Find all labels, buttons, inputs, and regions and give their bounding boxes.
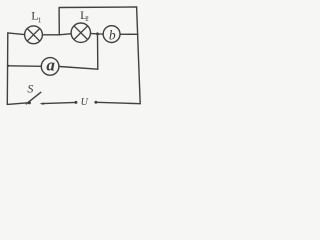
meter a circle	[41, 58, 59, 76]
switch pivot dot	[28, 101, 31, 104]
wire ammeter branch right	[50, 66, 98, 69]
wire voltage stub left	[43, 102, 76, 103]
terminal dot left of U	[74, 101, 77, 104]
wire bottom left to switch	[7, 103, 29, 105]
junction node dot on left rail	[7, 65, 9, 67]
svg-text:a: a	[46, 55, 55, 74]
svg-text:1: 1	[38, 15, 42, 24]
lamp L1 cross	[27, 29, 40, 42]
meter b circle	[103, 26, 120, 43]
wire bypass top rectangle	[59, 7, 137, 35]
svg-text:b: b	[109, 27, 116, 42]
svg-text:S: S	[27, 82, 33, 96]
wire left rail	[6, 33, 9, 105]
lamp L2 cross	[74, 26, 88, 40]
wire ammeter branch left	[8, 65, 50, 68]
svg-text:U: U	[81, 97, 89, 108]
background	[0, 0, 148, 111]
wire vertical connector to node	[97, 34, 99, 69]
lamp L2 circle	[71, 23, 90, 42]
wire top row through lamps and meter b	[8, 33, 138, 35]
arrowhead pointing left at switch side	[40, 102, 44, 105]
wire bottom right	[96, 102, 140, 103]
svg-text:2: 2	[85, 15, 89, 23]
terminal dot right of U	[94, 101, 97, 104]
junction node dot between L2 and b	[96, 32, 99, 35]
wire right rail	[137, 7, 141, 104]
lamp L1 circle	[25, 26, 43, 44]
switch S blade	[26, 92, 41, 104]
